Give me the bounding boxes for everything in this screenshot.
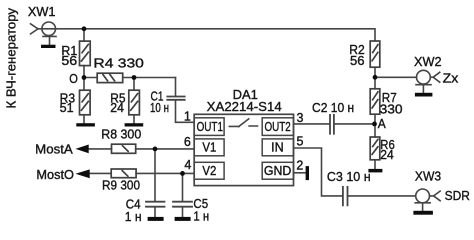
svg-text:R8 300: R8 300 [101,127,141,142]
svg-text:10 н: 10 н [150,100,169,115]
svg-text:V1: V1 [202,141,216,155]
svg-text:OUT2: OUT2 [264,120,290,134]
svg-text:4: 4 [184,158,191,172]
svg-text:24: 24 [110,100,124,115]
svg-text:1 н: 1 н [193,209,209,224]
svg-text:V2: V2 [202,164,216,178]
svg-text:XW2: XW2 [414,54,442,69]
svg-text:SDR: SDR [445,188,470,203]
svg-text:IN: IN [271,141,284,155]
svg-text:330: 330 [380,102,403,117]
svg-text:OUT1: OUT1 [197,120,223,134]
svg-text:56: 56 [350,53,365,68]
svg-text:1 н: 1 н [125,209,142,224]
svg-text:5: 5 [297,134,304,148]
svg-text:C2 10 н: C2 10 н [312,100,354,115]
svg-text:3: 3 [297,111,304,125]
svg-text:XW1: XW1 [28,4,56,19]
svg-text:MostO: MostO [36,167,74,182]
svg-text:56: 56 [61,53,77,68]
svg-text:GND: GND [264,164,292,178]
svg-text:O: O [69,71,78,86]
svg-text:Zx: Zx [443,71,459,86]
svg-text:1: 1 [184,109,191,123]
svg-text:24: 24 [380,147,394,162]
svg-text:MostA: MostA [35,142,73,157]
svg-text:XW3: XW3 [415,169,441,184]
svg-text:R9 300: R9 300 [102,178,140,193]
svg-text:C3 10 н: C3 10 н [327,169,371,184]
svg-text:51: 51 [60,100,74,115]
svg-text:XA2214-S14: XA2214-S14 [207,99,282,114]
svg-text:A: A [378,117,387,131]
svg-text:2: 2 [296,158,303,172]
svg-text:К ВЧ-генератору: К ВЧ-генератору [3,8,18,109]
svg-text:R4 330: R4 330 [93,56,143,71]
svg-text:6: 6 [184,135,191,149]
